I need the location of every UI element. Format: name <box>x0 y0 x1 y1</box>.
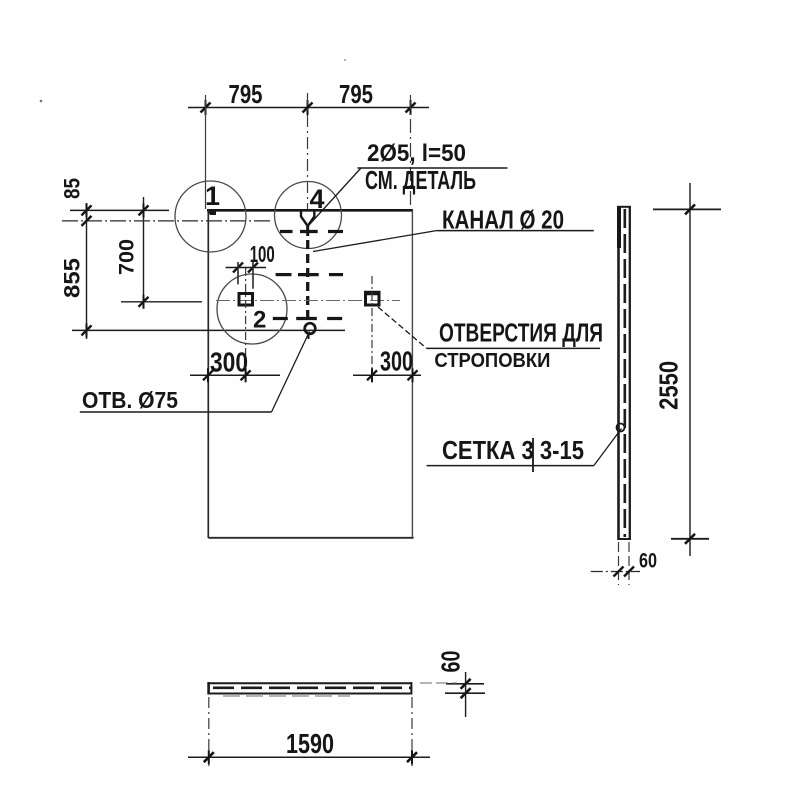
ОТВ leader <box>272 332 310 413</box>
extension dashed x=618.5 <box>618 542 620 585</box>
100 dim line <box>226 267 266 269</box>
speck mid <box>344 59 346 61</box>
side plate left edge <box>617 206 620 540</box>
svg-text:300: 300 <box>380 346 413 377</box>
svg-text:СМ. ДЕТАЛЬ: СМ. ДЕТАЛЬ <box>365 165 476 195</box>
panel top edge <box>207 209 413 212</box>
left 300 dim line <box>190 374 280 376</box>
right 300 dim line <box>353 374 421 376</box>
V-notch stem <box>306 226 309 236</box>
side plate bottom cap <box>618 538 632 540</box>
svg-text:855: 855 <box>60 258 85 298</box>
tick (86.5,220.9) <box>82 216 92 226</box>
svg-text:ОТВ. Ø75: ОТВ. Ø75 <box>82 387 178 413</box>
svg-text:795: 795 <box>229 79 263 109</box>
bottom plate top edge <box>208 682 412 684</box>
КАНАЛ underline <box>436 230 594 232</box>
bottom plate right cap <box>410 682 412 695</box>
60 vertical dim line <box>465 672 467 717</box>
tick (629,571.5) <box>624 567 634 577</box>
svg-text:1: 1 <box>205 181 220 211</box>
2550 bottom crossbar <box>671 538 709 540</box>
bottom plate bottom edge <box>208 693 412 695</box>
speck top-left <box>40 100 43 103</box>
60 top crossbar <box>446 683 484 685</box>
right square hole <box>366 293 380 305</box>
channel vertical dashed line <box>306 240 309 322</box>
tick (412,757.2) <box>407 750 417 764</box>
left dim vertical line A x=86.5 <box>86 203 88 339</box>
tick at x=410.5 <box>406 100 416 115</box>
svg-text:СЕТКА 3 3-15: СЕТКА 3 3-15 <box>442 435 584 465</box>
balloon circle 2 <box>217 274 287 344</box>
horizontal dash row 2 y=274.6 <box>276 273 343 276</box>
horizontal dash row 3 y=318.5 <box>273 317 342 320</box>
left dim vertical line B x=143.5 <box>143 197 145 308</box>
tick (208,375.3) <box>203 368 213 382</box>
tick (143.5,210.4) <box>139 203 149 217</box>
right square center line <box>371 276 373 381</box>
extension line left x=205.5 <box>205 95 207 209</box>
ОТВЕРСТИЯ underline <box>427 347 600 349</box>
60 dim line <box>591 571 640 573</box>
tick (86.5,210.4) <box>82 203 92 217</box>
bottom plate left cap <box>207 682 210 695</box>
tick (690,209.4) <box>685 204 695 214</box>
tick (372,375.3) <box>367 368 377 382</box>
ОТВЕРСТИЯ leader <box>378 307 427 348</box>
svg-text:100: 100 <box>250 241 275 267</box>
svg-text:700: 700 <box>116 239 139 275</box>
svg-text:2Ø5, l=50: 2Ø5, l=50 <box>367 140 466 167</box>
svg-text:300: 300 <box>210 347 248 378</box>
leader to V-notch <box>309 168 361 225</box>
extension x=238 <box>237 262 239 284</box>
horizontal ref line y=301.8 <box>121 301 202 303</box>
svg-text:СТРОПОВКИ: СТРОПОВКИ <box>434 350 550 372</box>
extension dashed x=629 <box>628 542 630 585</box>
2550 top crossbar <box>653 208 721 210</box>
svg-text:1590: 1590 <box>286 728 334 759</box>
tick (143.5,301.8) <box>139 295 149 309</box>
horizontal dash-dot axis y=220.9 <box>62 220 272 222</box>
tick (238,267.5) <box>233 263 243 273</box>
panel right edge <box>411 210 413 538</box>
1590 ext right dashed <box>411 697 413 766</box>
tick (465.6,683.8) <box>461 679 471 689</box>
right square top bar <box>364 291 381 296</box>
panel bottom edge <box>208 537 413 539</box>
tick (690,538.8) <box>685 534 695 544</box>
balloon circle 4 <box>275 182 342 249</box>
bottom hole small circle <box>305 323 316 334</box>
underline 2o5 <box>358 167 508 169</box>
svg-text:2: 2 <box>253 307 266 334</box>
extension line right x=410.5 <box>410 95 412 209</box>
extension x=253 <box>252 262 254 289</box>
КАНАЛ leader <box>313 231 436 252</box>
horizontal ref line y=210.4 <box>70 209 169 211</box>
svg-text:85: 85 <box>60 178 85 199</box>
60 bottom crossbar <box>445 692 485 694</box>
ext dash from plate top <box>420 682 457 684</box>
left square center line (vertical dash-dot) <box>245 268 247 381</box>
V-notch at top <box>301 211 314 227</box>
panel top-left corner blob <box>208 211 217 216</box>
fraction bar in 3|3 <box>532 438 534 472</box>
horizontal dash row 1 y=231.5 <box>280 230 343 233</box>
holes axis dash-dot y=300 <box>216 300 400 302</box>
panel left edge <box>207 210 209 538</box>
tick (253,267.5) <box>248 263 258 273</box>
mesh marker circle on plate <box>617 424 625 432</box>
2550 dim line <box>689 183 691 556</box>
horizontal ref line y=330.4 <box>72 329 345 331</box>
tick (245.6,375.3) <box>241 368 251 382</box>
balloon circle 1 <box>175 181 246 252</box>
svg-text:60: 60 <box>639 550 657 573</box>
tick at x=307.5 <box>303 100 313 115</box>
СЕТКА underline <box>427 465 594 467</box>
side plate top cap <box>618 206 632 208</box>
svg-text:ОТВЕРСТИЯ ДЛЯ: ОТВЕРСТИЯ ДЛЯ <box>439 318 603 348</box>
tick (86.5,330.4) <box>82 323 92 337</box>
1590 dim line <box>188 756 430 758</box>
СЕТКА leader <box>594 429 622 466</box>
ОТВ underline <box>80 411 272 413</box>
tick at x=205.5 <box>201 100 211 115</box>
left square hole <box>239 294 253 306</box>
bottom plate inner mesh dashes <box>213 686 411 689</box>
svg-text:60: 60 <box>436 651 466 673</box>
1590 ext left dashed <box>208 697 210 766</box>
svg-text:2550: 2550 <box>654 361 684 410</box>
side plate inner mesh dashed line <box>623 209 626 537</box>
tick (618.5,571.5) <box>614 567 624 577</box>
tick (208.8,757.2) <box>204 750 214 764</box>
svg-text:795: 795 <box>339 79 373 109</box>
top dimension line <box>188 107 429 109</box>
faint dashed under plate <box>223 695 350 697</box>
channel stem below circle <box>308 334 310 339</box>
extension center line x=307.5 dash-dot <box>307 93 309 209</box>
side plate right edge <box>629 206 631 540</box>
tick (412.5,375.3) <box>408 368 418 382</box>
tick (465.6,693.2) <box>461 688 471 698</box>
